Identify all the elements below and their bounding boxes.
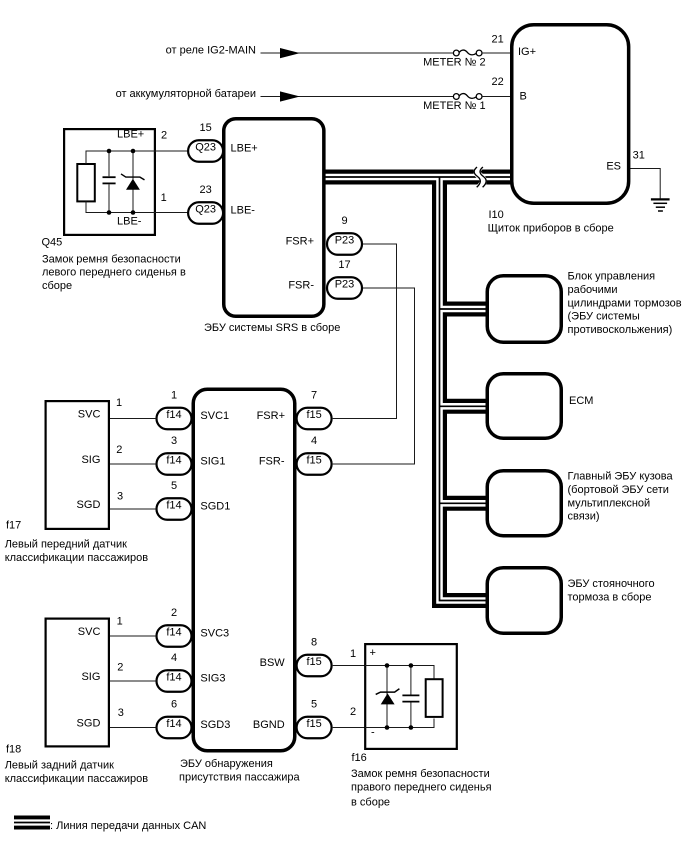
wire fuse METER No2 to I10 pin 21: [482, 52, 512, 54]
svg-text:f17: f17: [6, 520, 21, 532]
ground symbol: [651, 199, 670, 211]
junction dot Q45 top capacitor node: [107, 149, 112, 154]
svg-text:IG+: IG+: [518, 46, 536, 58]
svg-text:8: 8: [311, 637, 317, 649]
svg-text:2: 2: [171, 607, 177, 619]
ECU block: SRS airbag ECU assembly: [224, 119, 324, 317]
resistor in Q45: [77, 164, 95, 201]
wire top wire to resistor Q45: [85, 151, 87, 164]
svg-text:BSW: BSW: [260, 657, 286, 669]
svg-text:(ЭБУ системы: (ЭБУ системы: [568, 311, 640, 323]
connector oval f15 row y=665.5: [297, 655, 332, 677]
svg-text:LBE-: LBE-: [231, 205, 256, 217]
connector oval f14 row y=464: [157, 453, 192, 475]
svg-text:Главный ЭБУ кузова: Главный ЭБУ кузова: [568, 471, 674, 483]
component box f16 (seat belt buckle RH front): [365, 644, 457, 749]
svg-text:2: 2: [161, 129, 167, 141]
svg-text:f14: f14: [166, 500, 181, 512]
svg-text:METER № 2: METER № 2: [423, 57, 486, 69]
connector oval Q23 pin 23: [188, 202, 223, 224]
svg-text:(бортовой ЭБУ сети: (бортовой ЭБУ сети: [568, 484, 669, 496]
svg-text:17: 17: [338, 259, 350, 271]
wire resistor to bottom wire Q45: [85, 201, 87, 212]
svg-text:5: 5: [171, 480, 177, 492]
svg-text:SIG3: SIG3: [200, 673, 225, 685]
svg-text:21: 21: [492, 33, 504, 45]
svg-text:тормоза в сборе: тормоза в сборе: [568, 592, 652, 604]
svg-text:присутствия пассажира: присутствия пассажира: [179, 772, 300, 784]
svg-text:Замок ремня безопасности: Замок ремня безопасности: [42, 254, 181, 266]
svg-text:Щиток приборов в сборе: Щиток приборов в сборе: [488, 223, 614, 235]
connector oval P23 pin 17: [327, 277, 362, 299]
connector oval f14 row y=636: [157, 625, 192, 647]
wire top to capacitor f16: [410, 666, 412, 695]
svg-text:Левый задний датчик: Левый задний датчик: [5, 760, 114, 772]
legend CAN line sample (black outer): [14, 816, 50, 830]
svg-text:3: 3: [118, 707, 124, 719]
svg-text:LBE+: LBE+: [231, 143, 258, 155]
wire FSR- P23 to f15: [333, 288, 415, 464]
svg-text:+: +: [370, 647, 376, 659]
connector oval P23 pin 9: [327, 233, 362, 255]
ECU block: ECM: [487, 374, 561, 439]
svg-text:Q45: Q45: [42, 236, 63, 248]
svg-text:-: -: [371, 727, 375, 739]
svg-text:ЭБУ обнаружения: ЭБУ обнаружения: [180, 758, 273, 770]
svg-text:от аккумуляторной батареи: от аккумуляторной батареи: [116, 88, 256, 100]
svg-text:3: 3: [117, 490, 123, 502]
svg-text:1: 1: [171, 390, 177, 402]
junction dot f16 bottom capacitor node: [409, 725, 414, 730]
svg-text:SGD3: SGD3: [200, 719, 230, 731]
svg-text:цилиндрами тормозов: цилиндрами тормозов: [568, 297, 682, 309]
wire through zener f16: [386, 666, 388, 728]
svg-text:классификации пассажиров: классификации пассажиров: [5, 773, 149, 785]
svg-text:Блок управления: Блок управления: [568, 271, 656, 283]
svg-text:B: B: [520, 91, 527, 103]
svg-text:SVC: SVC: [78, 626, 101, 638]
svg-text:ЭБУ стояночного: ЭБУ стояночного: [568, 578, 655, 590]
svg-text:LBE+: LBE+: [117, 128, 144, 140]
svg-text:SGD1: SGD1: [200, 501, 230, 513]
svg-text:Q23: Q23: [195, 142, 216, 154]
svg-text:7: 7: [311, 390, 317, 402]
component box Q45 (seat belt buckle LH front): [64, 129, 155, 235]
svg-text:f14: f14: [166, 455, 181, 467]
wire f16 bottom rail: [365, 719, 434, 728]
wire f17 SVC to f14: [110, 418, 157, 420]
svg-text:SGD: SGD: [77, 718, 101, 730]
CAN bus break symbol left curl: [474, 167, 480, 187]
svg-text:SVC3: SVC3: [200, 628, 229, 640]
svg-text:P23: P23: [335, 235, 355, 247]
junction dot Q45 bottom zener node: [131, 210, 136, 215]
svg-text:Q23: Q23: [195, 204, 216, 216]
svg-text:SIG: SIG: [81, 671, 100, 683]
svg-text:P23: P23: [335, 279, 355, 291]
wire I10 pin 31 ES to ground: [630, 169, 660, 199]
junction dot f16 bottom zener node: [385, 725, 390, 730]
connector oval f14 row y=681: [157, 670, 192, 692]
svg-text:SIG: SIG: [81, 454, 100, 466]
wire f17 SGD to f14: [110, 508, 157, 510]
legend CAN line sample (white stripes): [14, 819, 50, 825]
ECU block: occupant detection ECU: [193, 389, 295, 751]
sensor box f17 (front occupant classification sensor LH): [46, 401, 109, 529]
svg-text:рабочими: рабочими: [568, 284, 618, 296]
connector oval f15 row y=418.5: [297, 408, 332, 430]
svg-text:FSR-: FSR-: [259, 456, 285, 468]
svg-text:6: 6: [171, 699, 177, 711]
connector oval f14 row y=727.5: [157, 717, 192, 739]
svg-text:f15: f15: [306, 718, 321, 730]
svg-text:SIG1: SIG1: [200, 456, 225, 468]
svg-text:23: 23: [199, 184, 211, 196]
capacitor in Q45: [103, 177, 116, 183]
wire f16 top rail: [365, 666, 434, 679]
resistor in f16: [426, 679, 443, 717]
svg-text:1: 1: [161, 192, 167, 204]
svg-text:противоскольжения): противоскольжения): [568, 324, 673, 336]
wire f17 SIG to f14: [110, 463, 157, 465]
svg-text:Левый передний датчик: Левый передний датчик: [5, 539, 127, 551]
svg-text:2: 2: [116, 444, 122, 456]
wire from battery to fuse METER No1: [261, 96, 454, 98]
svg-text:сборе: сборе: [42, 280, 72, 292]
ECU block: skid control ECU: [487, 276, 561, 343]
sensor box f18 (rear occupant classification sensor LH): [46, 619, 109, 747]
wire through zener Q45: [132, 151, 134, 213]
connector oval Q23 pin 15: [188, 140, 223, 162]
wire FSR+ P23 to f15: [333, 244, 397, 419]
svg-text:f16: f16: [352, 752, 367, 764]
svg-text:BGND: BGND: [253, 719, 285, 731]
svg-text:правого переднего сиденья: правого переднего сиденья: [351, 782, 492, 794]
svg-text:f14: f14: [166, 409, 181, 421]
zener diode in Q45: [121, 174, 145, 190]
svg-text:2: 2: [117, 661, 123, 673]
svg-text:5: 5: [311, 699, 317, 711]
svg-text:1: 1: [117, 616, 123, 628]
connector oval f15 row y=727.5: [297, 717, 332, 739]
junction dot Q45 bottom capacitor node: [107, 210, 112, 215]
ECU block I10 (instrument cluster): [512, 25, 629, 204]
svg-text:f14: f14: [166, 672, 181, 684]
junction dot f16 top capacitor node: [409, 663, 414, 668]
junction dot f16 top zener node: [385, 663, 390, 668]
svg-text:Замок ремня безопасности: Замок ремня безопасности: [351, 768, 490, 780]
connector oval f14 row y=418.5: [157, 408, 192, 430]
wire BSW to f16 pin 1: [333, 665, 365, 667]
svg-text:f18: f18: [6, 744, 21, 756]
svg-text:ES: ES: [606, 161, 621, 173]
svg-text:FSR+: FSR+: [286, 236, 314, 248]
svg-text:31: 31: [633, 149, 645, 161]
svg-text:15: 15: [199, 122, 211, 134]
wire f18 SGD to f14: [110, 727, 157, 729]
connector oval f15 row y=464: [297, 453, 332, 475]
svg-text:ЭБУ системы SRS в сборе: ЭБУ системы SRS в сборе: [204, 322, 340, 334]
svg-text:от реле IG2-MAIN: от реле IG2-MAIN: [166, 45, 256, 57]
CAN bus thin center line layer: [322, 177, 512, 601]
wire top to capacitor Q45: [108, 151, 110, 176]
svg-text:1: 1: [350, 648, 356, 660]
svg-text:f15: f15: [306, 455, 321, 467]
wire BGND to f16 pin 2: [333, 727, 365, 729]
wire LBE+ internal and to Q23: [86, 150, 189, 152]
svg-text:22: 22: [492, 76, 504, 88]
svg-text:I10: I10: [489, 209, 504, 221]
arrow from relay IG2-MAIN: [280, 48, 300, 58]
svg-text:в сборе: в сборе: [351, 797, 390, 809]
svg-text:FSR-: FSR-: [288, 280, 314, 292]
svg-text:LBE-: LBE-: [117, 215, 142, 227]
svg-text:FSR+: FSR+: [257, 410, 285, 422]
svg-text:9: 9: [341, 215, 347, 227]
svg-text:3: 3: [171, 435, 177, 447]
wire capacitor to bottom f16: [410, 703, 412, 728]
connector oval f14 row y=509: [157, 498, 192, 520]
wire from IG2-MAIN relay to fuse METER No2: [261, 52, 454, 54]
svg-text:f15: f15: [306, 656, 321, 668]
svg-text:4: 4: [311, 435, 317, 447]
svg-text:ECM: ECM: [569, 395, 593, 407]
arrow from battery: [280, 91, 300, 101]
svg-text:SGD: SGD: [77, 499, 101, 511]
junction dot Q45 top zener node: [131, 149, 136, 154]
CAN bus break symbol (white gap): [477, 167, 483, 187]
fuse METER No2: [453, 50, 482, 56]
wire LBE- internal and to Q23: [86, 212, 189, 214]
svg-text:связи): связи): [568, 511, 600, 523]
svg-text:f14: f14: [166, 718, 181, 730]
svg-text:классификации пассажиров: классификации пассажиров: [5, 552, 149, 564]
svg-text:левого переднего сиденья в: левого переднего сиденья в: [42, 267, 186, 279]
capacitor in f16: [402, 695, 419, 701]
wire fuse METER No1 to I10 pin 22: [482, 96, 512, 98]
svg-text:SVC: SVC: [78, 409, 101, 421]
svg-text:2: 2: [350, 706, 356, 718]
svg-text:1: 1: [116, 397, 122, 409]
svg-text:: Линия передачи данных CAN: : Линия передачи данных CAN: [50, 820, 206, 832]
svg-text:SVC1: SVC1: [200, 410, 229, 422]
CAN bus break symbol right curl: [480, 167, 486, 187]
CAN bus trunk, top run and branches (black outer layer): [322, 177, 512, 601]
svg-text:f15: f15: [306, 409, 321, 421]
CAN bus white inner stripe layer: [322, 177, 512, 601]
wire f18 SIG to f14: [110, 680, 157, 682]
ECU block: parking brake ECU: [487, 568, 561, 634]
legend CAN line sample (center line): [14, 822, 50, 824]
svg-text:f14: f14: [166, 627, 181, 639]
svg-text:4: 4: [171, 652, 177, 664]
zener diode in f16: [376, 689, 400, 705]
svg-text:мультиплексной: мультиплексной: [568, 497, 651, 509]
ECU block: main body ECU: [487, 471, 561, 536]
wire f18 SVC to f14: [110, 635, 157, 637]
svg-text:METER № 1: METER № 1: [423, 100, 486, 112]
wire capacitor to bottom wire Q45: [108, 184, 110, 212]
fuse METER No1: [453, 94, 482, 100]
